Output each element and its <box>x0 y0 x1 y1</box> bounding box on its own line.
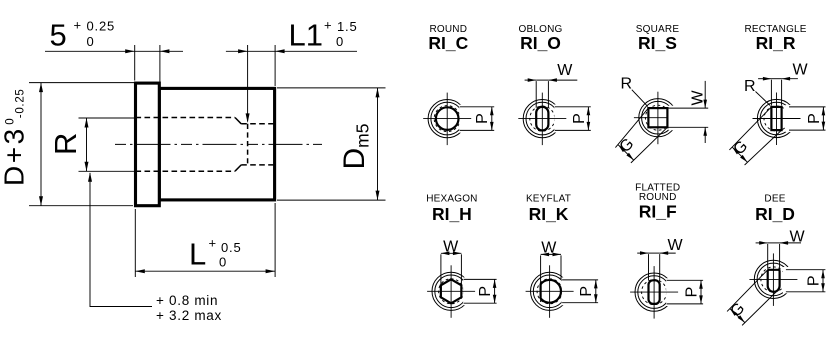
RI_H dimension clearance box <box>463 277 500 305</box>
bore hidden line top <box>136 117 236 119</box>
RI_R rectangle bore <box>771 107 781 130</box>
RI_S square bore <box>648 108 667 127</box>
RI_D G dimension extension lines (45 deg) <box>727 270 768 312</box>
RI_K icon counterbore circle <box>533 275 566 308</box>
svg-text:RI_S: RI_S <box>638 33 677 53</box>
RI_H icon counterbore circle <box>435 275 468 308</box>
part body (cylindrical shell, front section view) <box>159 88 274 199</box>
svg-text:L: L <box>189 236 206 271</box>
RI_K keyflat bore (circle with flat) <box>541 280 561 303</box>
svg-text:D+3: D+3 <box>0 126 30 186</box>
small bore hidden line bottom <box>241 164 274 166</box>
dimension L1 (small bore depth) extension lines <box>247 45 249 122</box>
svg-text:+ 3.2 max: + 3.2 max <box>156 308 222 323</box>
part centerline <box>115 143 322 145</box>
RI_H icon outer circle <box>432 272 470 310</box>
RI_F flatted round bore <box>649 280 660 304</box>
svg-text:W: W <box>668 237 684 254</box>
svg-text:+ 0.8 min: + 0.8 min <box>156 293 218 308</box>
RI_C icon centerlines <box>423 118 471 120</box>
RI_K P dimension extension lines <box>562 279 598 281</box>
RI_R icon outer circle <box>757 99 795 137</box>
RI_H icon knurl dashed circle <box>439 279 464 304</box>
RI_H icon centerlines <box>427 290 475 292</box>
svg-text:RI_C: RI_C <box>428 33 468 53</box>
RI_R P dimension line and arrows <box>822 107 824 130</box>
RI_R dimension clearance box <box>786 105 828 132</box>
svg-text:G: G <box>730 138 751 159</box>
RI_O P dimension extension lines <box>555 106 591 108</box>
RI_F icon counterbore circle <box>638 276 671 309</box>
svg-text:P: P <box>474 113 491 124</box>
dimension L (overall length) extension lines <box>134 209 136 277</box>
RI_F icon knurl dashed circle <box>642 280 667 305</box>
svg-text:RI_K: RI_K <box>529 204 569 224</box>
RI_H P dimension extension lines <box>464 278 497 280</box>
RI_K icon centerlines <box>526 290 574 292</box>
svg-text:P: P <box>806 113 823 124</box>
svg-text:0: 0 <box>87 34 94 49</box>
svg-text:5: 5 <box>50 17 67 52</box>
RI_S dimension clearance box <box>668 106 709 131</box>
dimension L dimension line and arrows <box>135 270 275 272</box>
RI_C P dimension line and arrows <box>491 107 493 131</box>
RI_H P dimension line and arrows <box>494 279 496 303</box>
dimension D+3 dimension line and arrows <box>40 83 42 206</box>
svg-text:RI_H: RI_H <box>432 204 472 224</box>
dimension 5 dimension line and arrows <box>45 50 135 52</box>
svg-text:P: P <box>477 286 494 297</box>
svg-text:1.5: 1.5 <box>337 19 357 34</box>
svg-text:RI_F: RI_F <box>639 202 677 222</box>
RI_R W dimension extension lines <box>770 80 772 106</box>
svg-text:RI_O: RI_O <box>520 33 561 53</box>
svg-text:R: R <box>621 76 633 93</box>
RI_F P dimension line and arrows <box>700 280 702 304</box>
svg-text:0: 0 <box>219 255 226 270</box>
RI_K P dimension line and arrows <box>595 280 597 303</box>
dimension L1 dimension line and arrows <box>226 50 248 52</box>
svg-text:HEXAGON: HEXAGON <box>426 193 477 204</box>
svg-text:W: W <box>443 238 459 255</box>
RI_O dimension clearance box <box>554 104 594 132</box>
RI_D dimension clearance box <box>783 267 826 293</box>
part flange (head) <box>136 83 160 206</box>
RI_R icon counterbore circle <box>760 102 793 135</box>
dimension 5 (flange thickness) extension lines <box>134 45 136 81</box>
RI_D icon centerlines <box>749 278 797 280</box>
svg-text:G: G <box>617 135 638 156</box>
RI_R icon knurl dashed circle <box>764 106 789 131</box>
RI_F icon centerlines <box>630 291 678 293</box>
svg-text:P: P <box>578 286 595 297</box>
dimension R dimension line and arrows <box>86 118 88 171</box>
bore chamfer hidden line bottom <box>235 165 241 171</box>
RI_O W dimension line and arrows <box>525 79 537 81</box>
RI_F icon outer circle <box>635 273 673 311</box>
dimension Dm5 (body diameter) extension lines <box>277 87 386 89</box>
RI_S icon knurl dashed circle <box>645 105 670 130</box>
RI_O oblong bore <box>536 107 548 131</box>
svg-text:DEE: DEE <box>764 193 785 204</box>
svg-text:+: + <box>324 18 332 33</box>
RI_R P dimension extension lines <box>789 106 826 108</box>
RI_S icon centerlines <box>634 117 682 119</box>
RI_O icon outer circle <box>523 100 561 138</box>
svg-text:0: 0 <box>4 118 16 124</box>
RI_D W dimension line and arrows <box>756 242 768 244</box>
dimension Dm5 dimension line and arrows <box>377 88 379 200</box>
RI_H W dimension extension lines <box>440 254 442 284</box>
svg-text:P: P <box>805 275 822 286</box>
RI_F W dimension line and arrows <box>637 252 648 254</box>
dimension D+3 (flange diameter) extension lines <box>29 82 134 84</box>
RI_C icon outer circle <box>428 100 466 138</box>
svg-text:R: R <box>744 78 756 95</box>
RI_O icon knurl dashed circle <box>530 106 555 131</box>
dimension R (bore diameter) extension lines <box>79 117 135 119</box>
svg-text:0.5: 0.5 <box>221 240 241 255</box>
svg-text:Dm5: Dm5 <box>338 124 373 170</box>
svg-text:+: + <box>74 18 82 33</box>
small bore hidden line top <box>241 123 274 125</box>
RI_R G dimension extension lines (45 deg) <box>729 107 771 150</box>
RI_D icon knurl dashed circle <box>761 267 786 292</box>
RI_K dimension clearance box <box>562 277 599 305</box>
svg-text:RI_R: RI_R <box>756 33 796 53</box>
svg-text:0: 0 <box>336 34 343 49</box>
svg-text:R: R <box>48 133 83 155</box>
RI_S icon outer circle <box>639 99 677 137</box>
RI_K W dimension line and arrows <box>541 253 561 255</box>
RI_D icon outer circle <box>754 260 792 298</box>
RI_O W dimension extension lines <box>535 81 537 108</box>
svg-text:W: W <box>790 228 806 245</box>
RI_R G dimension line and arrows <box>732 147 747 162</box>
RI_S icon counterbore circle <box>642 101 675 134</box>
RI_D W dimension extension lines <box>767 244 769 269</box>
RI_O icon centerlines <box>518 118 566 120</box>
RI_K icon outer circle <box>531 272 569 310</box>
svg-text:W: W <box>793 61 809 78</box>
svg-text:0.25: 0.25 <box>87 19 116 34</box>
RI_S G dimension line and arrows <box>618 145 634 160</box>
svg-text:L1: L1 <box>289 18 323 53</box>
RI_R W dimension line and arrows <box>758 78 771 80</box>
RI_F P dimension extension lines <box>667 279 704 281</box>
RI_F W dimension extension lines <box>648 254 650 280</box>
RI_R icon centerlines <box>753 118 801 120</box>
RI_S W dimension (right side) extension lines <box>668 107 708 109</box>
svg-text:W: W <box>541 239 557 256</box>
svg-text:+: + <box>209 235 217 250</box>
RI_H hexagon bore <box>441 279 462 303</box>
bore step hidden line (vertical) <box>247 124 249 165</box>
RI_K icon knurl dashed circle <box>537 279 562 304</box>
RI_K W dimension extension lines <box>540 255 542 302</box>
RI_O P dimension line and arrows <box>587 107 589 131</box>
RI_C icon counterbore circle <box>431 102 464 135</box>
chamfer note leader line with arrow <box>88 172 92 182</box>
RI_C P dimension extension lines <box>460 106 495 108</box>
svg-text:P: P <box>571 113 588 124</box>
RI_O icon counterbore circle <box>526 102 559 135</box>
RI_C dimension clearance box <box>459 105 494 133</box>
RI_F dimension clearance box <box>666 278 704 306</box>
svg-text:KEYFLAT: KEYFLAT <box>526 193 571 204</box>
RI_C round bore <box>436 107 459 130</box>
bore chamfer hidden line top <box>235 118 241 124</box>
RI_D icon counterbore circle <box>757 263 790 296</box>
svg-text:RI_D: RI_D <box>755 204 795 224</box>
RI_C icon knurl dashed circle <box>434 106 460 132</box>
RI_D G dimension line and arrows <box>730 309 745 323</box>
svg-text:-0.25: -0.25 <box>14 88 26 118</box>
bore hidden line bottom <box>136 170 236 172</box>
RI_D dee bore (flat top, round bottom) <box>768 270 780 292</box>
svg-text:W: W <box>690 90 707 106</box>
svg-text:G: G <box>727 300 748 321</box>
RI_H W dimension line and arrows <box>441 252 462 254</box>
RI_S G dimension extension lines (45 deg) <box>615 108 648 148</box>
RI_D P dimension line and arrows <box>822 270 824 292</box>
svg-text:P: P <box>683 287 700 298</box>
RI_S W dimension line and arrows <box>704 81 706 108</box>
RI_D P dimension extension lines <box>786 269 826 271</box>
svg-text:W: W <box>557 62 573 79</box>
